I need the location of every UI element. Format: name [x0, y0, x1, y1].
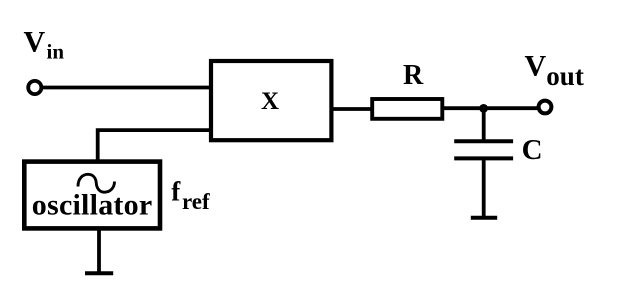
svg-text:oscillator: oscillator	[32, 189, 152, 222]
svg-text:f: f	[171, 176, 181, 206]
svg-text:V: V	[24, 25, 46, 58]
svg-text:out: out	[546, 61, 584, 91]
svg-text:R: R	[403, 60, 424, 91]
svg-text:C: C	[522, 134, 543, 166]
svg-text:in: in	[47, 39, 65, 63]
svg-text:ref: ref	[182, 189, 210, 214]
svg-text:X: X	[261, 88, 279, 115]
svg-text:V: V	[525, 49, 547, 82]
